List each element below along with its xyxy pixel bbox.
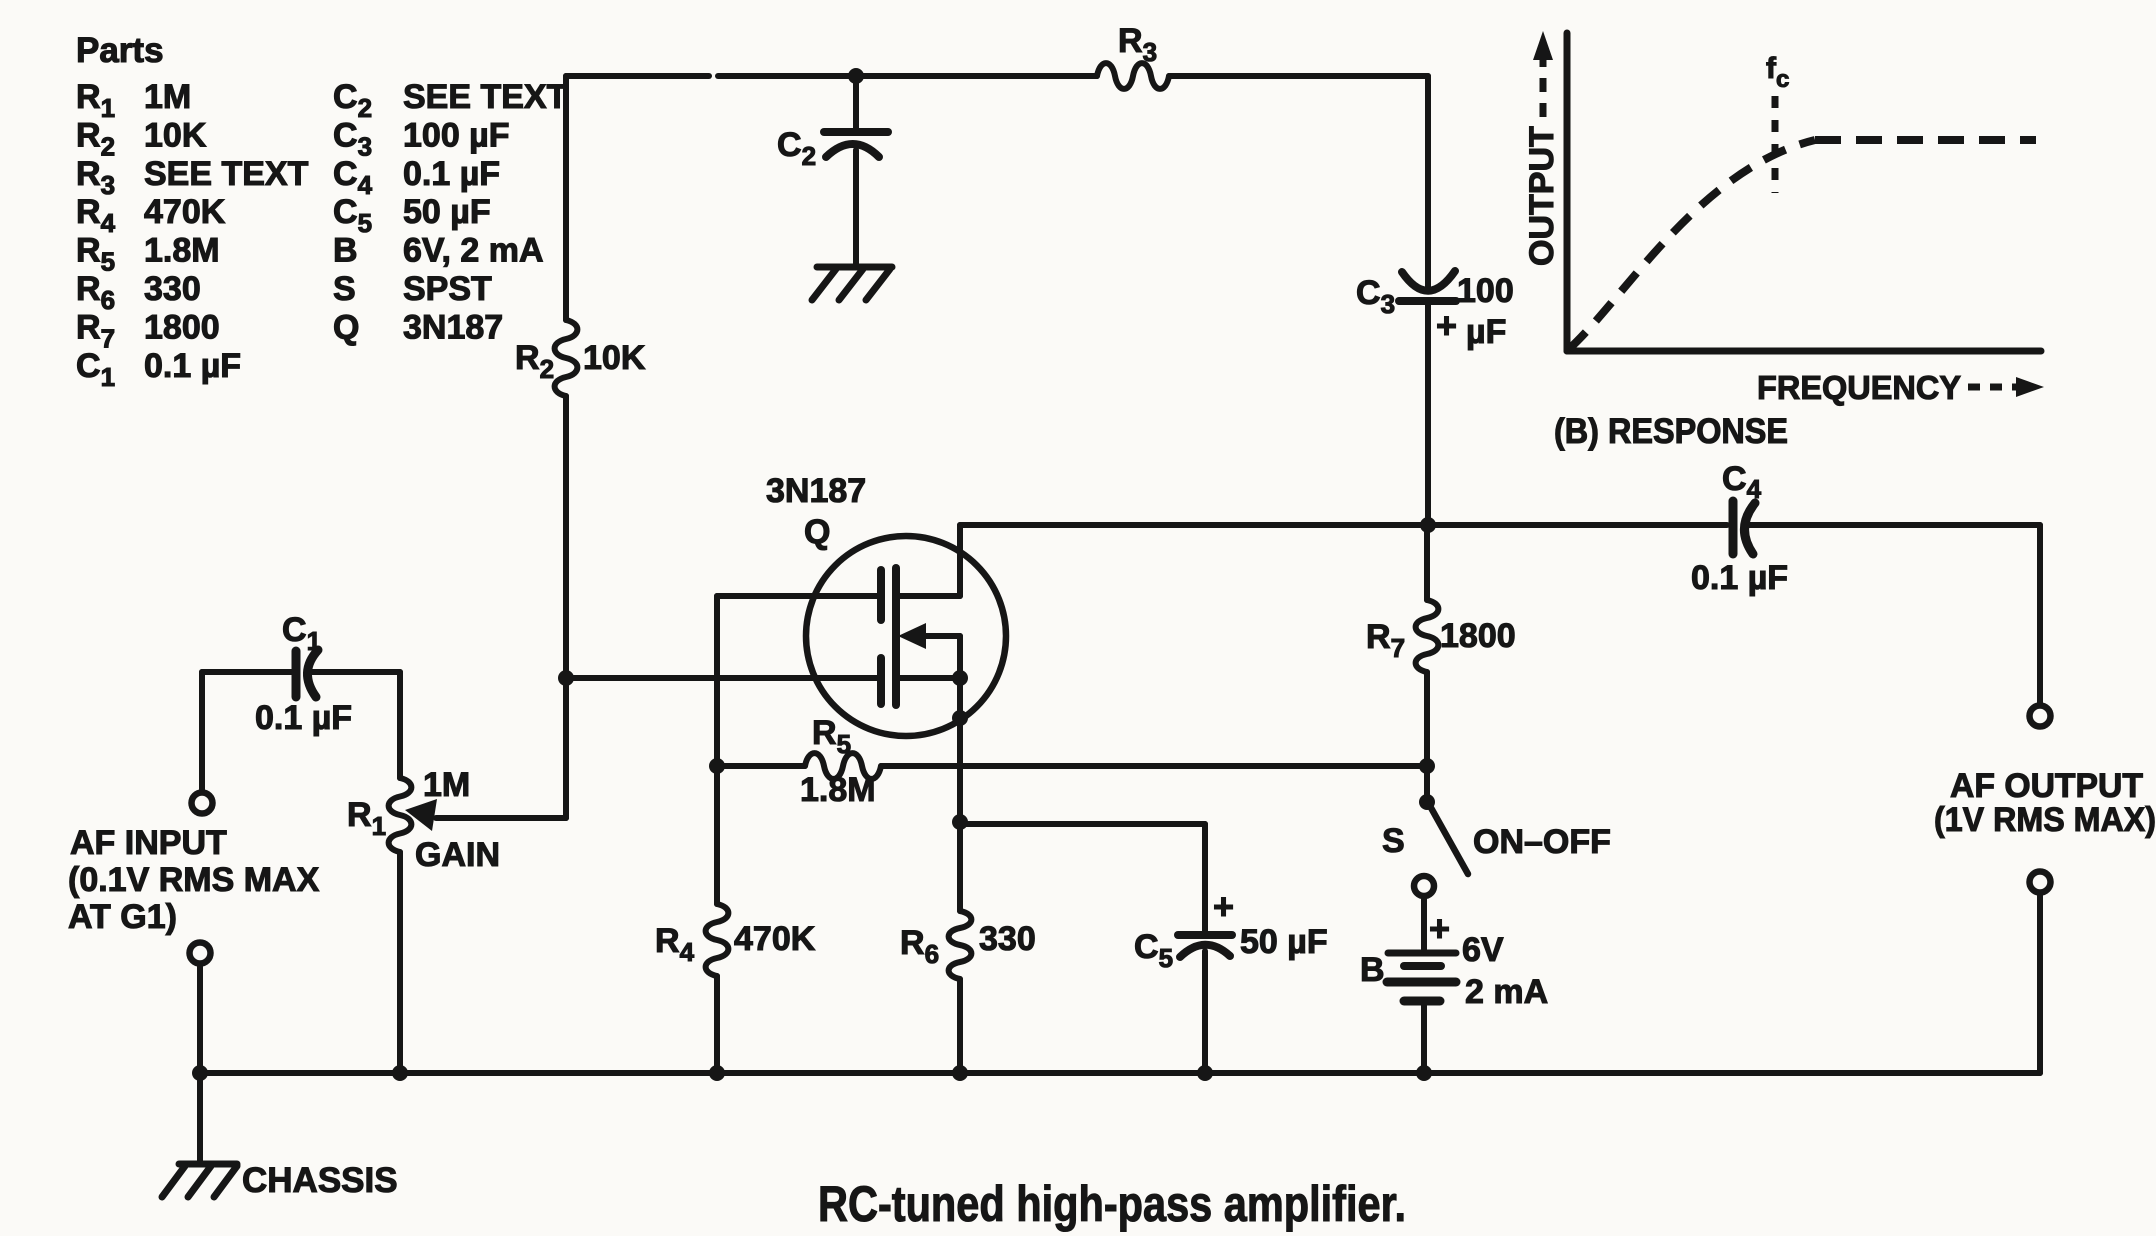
wire ground bus [200, 1070, 2040, 1076]
svg-text:AF INPUT: AF INPUT [70, 824, 227, 862]
svg-text:3N187: 3N187 [403, 308, 503, 346]
wire gate2 line [717, 593, 877, 599]
node junction top rail / C2 [848, 68, 864, 84]
terminal AF input upper [192, 793, 213, 814]
label fc [1766, 52, 1789, 93]
wire R6 lower [957, 979, 963, 1073]
resistor R2 [515, 320, 646, 396]
svg-text:AT G1): AT G1) [68, 898, 177, 936]
svg-text:SEE TEXT: SEE TEXT [144, 155, 309, 193]
graph axes [1567, 33, 2041, 351]
svg-text:2 mA: 2 mA [1465, 973, 1548, 1011]
svg-text:50 µF: 50 µF [403, 193, 491, 231]
resistor R3 [1097, 22, 1169, 89]
wire R2 branch lower [563, 396, 569, 678]
svg-text:1800: 1800 [1440, 617, 1516, 655]
svg-text:S: S [1382, 822, 1405, 860]
svg-text:+: + [1436, 305, 1457, 346]
wire C5 branch [960, 824, 1205, 931]
svg-text:OUTPUT: OUTPUT [1523, 126, 1561, 266]
svg-text:330: 330 [979, 920, 1036, 958]
wire drain rail right [1749, 522, 2040, 528]
wire C3 stem upper [1425, 76, 1431, 289]
capacitor C2 [777, 126, 888, 266]
svg-text:50 µF: 50 µF [1240, 923, 1328, 961]
resistor R7 [1366, 600, 1516, 672]
node junction bus R6 [952, 1065, 968, 1081]
wire R7 lower [1424, 672, 1430, 802]
wire source drop [957, 636, 963, 822]
wire battery lower [1421, 1001, 1427, 1073]
wire top rail left segment b [718, 73, 1097, 79]
wire gain tap [436, 678, 566, 818]
node junction gate1 [558, 670, 574, 686]
capacitor C4 [1691, 460, 1788, 597]
node junction bus battery [1416, 1065, 1432, 1081]
svg-text:FREQUENCY: FREQUENCY [1757, 369, 1961, 406]
terminal AF output lower [2030, 872, 2051, 893]
wire C2 stem upper [853, 76, 859, 128]
svg-text:1M: 1M [144, 78, 191, 116]
capacitor C1 [255, 611, 352, 737]
svg-text:10K: 10K [583, 339, 646, 377]
wire output upper drop [2037, 525, 2043, 705]
svg-text:µF: µF [1466, 313, 1506, 351]
svg-text:0.1 µF: 0.1 µF [403, 155, 500, 193]
svg-text:0.1 µF: 0.1 µF [144, 347, 241, 385]
wire C1 left [202, 669, 292, 675]
node junction bus input [192, 1065, 208, 1081]
wire R2 branch upper [563, 76, 569, 320]
wire C3 to drain rail [1425, 301, 1431, 525]
wire C5 lower [1202, 951, 1208, 1073]
wire gate1 line [566, 675, 877, 681]
svg-text:3N187: 3N187 [766, 472, 866, 510]
svg-text:(0.1V RMS MAX: (0.1V RMS MAX [68, 861, 320, 899]
svg-text:470K: 470K [144, 193, 226, 231]
svg-text:ON–OFF: ON–OFF [1473, 823, 1611, 861]
switch S [1382, 794, 1611, 874]
transistor Q 3N187 [806, 536, 1006, 736]
potentiometer R1 [347, 766, 500, 874]
resistor R4 [655, 904, 816, 976]
svg-text:0.1 µF: 0.1 µF [255, 699, 352, 737]
parts list [76, 31, 568, 392]
svg-text:1800: 1800 [144, 308, 220, 346]
svg-text:470K: 470K [734, 920, 816, 958]
capacitor C3 [1356, 271, 1514, 351]
node junction source [952, 670, 968, 686]
wire R1 upper [397, 672, 403, 778]
terminal AF input lower [190, 943, 211, 964]
svg-text:B: B [333, 232, 358, 270]
svg-text:6V, 2 mA: 6V, 2 mA [403, 232, 544, 270]
label transistor type [766, 472, 866, 551]
node junction R5 left [709, 758, 725, 774]
resistor R6 [900, 911, 1036, 979]
terminal AF output upper [2030, 706, 2051, 727]
caption [818, 1176, 1406, 1232]
svg-text:+: + [1429, 908, 1450, 949]
wire output lower drop [2037, 893, 2043, 1073]
svg-text:(B) RESPONSE: (B) RESPONSE [1554, 412, 1788, 451]
svg-text:0.1 µF: 0.1 µF [1691, 559, 1788, 597]
svg-text:Parts: Parts [76, 31, 164, 70]
wire drain rail left [960, 522, 1727, 528]
label AF INPUT [68, 824, 320, 936]
svg-text:10K: 10K [144, 116, 207, 154]
svg-text:Q: Q [333, 308, 359, 346]
svg-text:RC-tuned high-pass amplifier.: RC-tuned high-pass amplifier. [818, 1176, 1406, 1232]
svg-text:6V: 6V [1462, 931, 1504, 969]
svg-text:Q: Q [804, 513, 830, 551]
ground chassis [162, 1161, 398, 1200]
wire R4 lower [714, 976, 720, 1073]
wire drain riser [957, 525, 963, 596]
svg-text:1.8M: 1.8M [144, 232, 220, 270]
graph response curve [1569, 140, 2036, 349]
node junction bus C5 [1197, 1065, 1213, 1081]
graph OUTPUT arrow [1533, 31, 1553, 117]
capacitor C5 [1134, 886, 1328, 973]
node junction source at circle [952, 710, 968, 726]
svg-text:SEE TEXT: SEE TEXT [403, 78, 568, 116]
wire input upper drop [199, 672, 205, 792]
svg-text:GAIN: GAIN [415, 836, 500, 874]
svg-text:1M: 1M [423, 766, 470, 804]
wire R6 upper [957, 822, 963, 911]
arrow gain wiper [405, 799, 437, 831]
wire top rail right segment [1169, 73, 1428, 79]
wire C1 right [312, 669, 400, 675]
svg-text:(1V RMS MAX): (1V RMS MAX) [1934, 801, 2156, 839]
wire battery upper [1421, 896, 1427, 950]
node junction drain rail [1420, 517, 1436, 533]
wire gate2 drop [714, 596, 720, 904]
svg-text:330: 330 [144, 270, 201, 308]
graph fc dashed line [1772, 96, 1779, 193]
terminal switch lower [1414, 876, 1434, 896]
battery B [1360, 908, 1548, 1011]
svg-text:AF OUTPUT: AF OUTPUT [1950, 767, 2143, 805]
ground below C2 [812, 267, 892, 300]
svg-text:CHASSIS: CHASSIS [242, 1161, 398, 1200]
resistor R5 [717, 714, 1427, 809]
svg-text:100: 100 [1457, 272, 1514, 310]
label OUTPUT [1523, 126, 1561, 266]
node junction bus R4 [709, 1065, 725, 1081]
wire input lower drop [197, 964, 203, 1073]
svg-text:1.8M: 1.8M [800, 771, 876, 809]
label FREQUENCY [1757, 369, 2044, 406]
svg-text:B: B [1360, 951, 1385, 989]
wire R1 lower [397, 852, 403, 1073]
svg-text:+: + [1213, 886, 1234, 927]
wire top rail left segment [566, 73, 709, 79]
svg-text:100 µF: 100 µF [403, 116, 510, 154]
node junction bus R1 [392, 1065, 408, 1081]
svg-text:S: S [333, 270, 356, 308]
svg-text:SPST: SPST [403, 270, 492, 308]
label AF OUTPUT [1934, 767, 2156, 839]
node junction C5 branch [952, 814, 968, 830]
label (B) RESPONSE [1554, 412, 1788, 451]
node junction R5 right [1419, 758, 1435, 774]
wire R7 upper [1424, 525, 1430, 600]
wire chassis stem [197, 1073, 203, 1164]
